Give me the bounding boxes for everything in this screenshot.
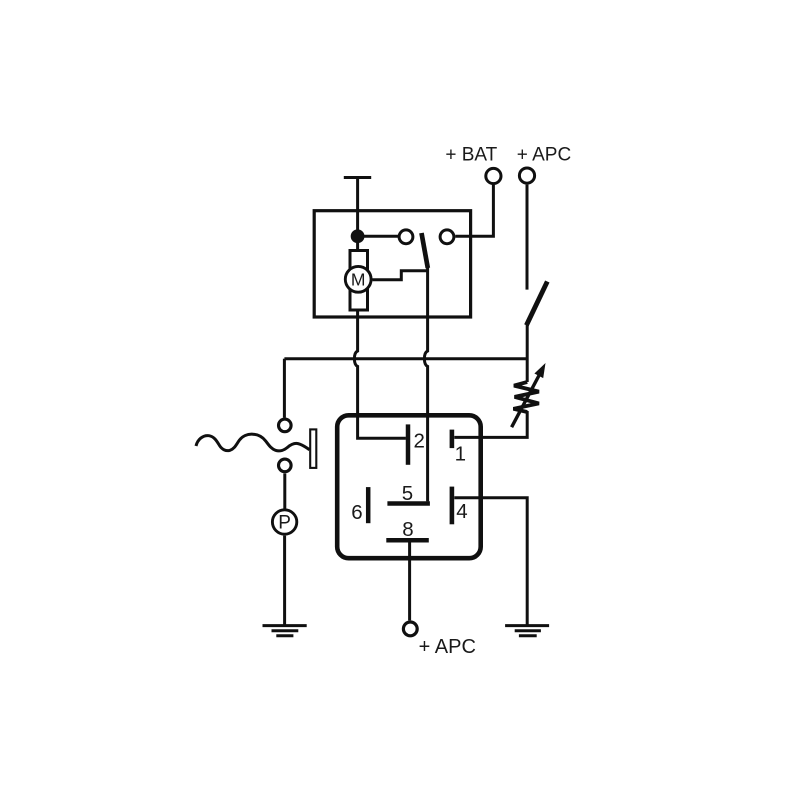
variable resistor arrow	[512, 363, 546, 427]
pin 5 bar	[387, 501, 430, 506]
wire junction dot to motor resistor	[356, 243, 359, 252]
+BAT terminal circle	[486, 168, 501, 183]
contact terminal circle a	[399, 230, 413, 244]
wire plug P to ground	[283, 536, 286, 626]
coax wavy lead	[196, 434, 310, 451]
pin 4 bar	[450, 487, 455, 525]
svg-text:P: P	[278, 513, 291, 534]
ground right	[505, 626, 549, 636]
antenna terminal circle lower	[279, 459, 292, 472]
wire pin 4 to right ground	[454, 498, 527, 626]
bus wire horizontal	[284, 357, 527, 360]
pin 2 bar	[406, 424, 411, 464]
wire motor lead down to pin 2 (with crossover hop)	[354, 309, 406, 438]
antenna mast	[344, 178, 371, 237]
svg-text:+ APC: + APC	[517, 144, 571, 165]
relay unit box	[337, 415, 481, 558]
svg-text:8: 8	[402, 518, 413, 541]
svg-text:4: 4	[456, 500, 467, 523]
wire dot to contact 1	[358, 235, 398, 238]
motor unit box	[314, 211, 470, 317]
ground left	[263, 626, 307, 636]
wire switch lead down to pin 5 (with crossover hop)	[424, 266, 427, 501]
pin 1 bar	[450, 430, 455, 449]
wire resistor to pin 1 corner	[454, 411, 527, 437]
ignition switch blade	[526, 282, 547, 326]
svg-text:1: 1	[455, 442, 466, 465]
wire lower terminal to plug P	[283, 473, 286, 508]
pin 6 bar	[366, 487, 371, 523]
wire bus down to antenna terminal	[283, 359, 286, 418]
svg-text:+ BAT: + BAT	[445, 145, 497, 166]
svg-text:5: 5	[402, 482, 413, 505]
svg-text:+ APC: + APC	[419, 636, 476, 658]
wire motor to switch blade (L-shape)	[373, 271, 428, 280]
variable resistor zigzag	[513, 382, 539, 412]
wire contact b to +BAT corner	[455, 185, 493, 236]
antenna terminal circle upper	[279, 419, 292, 432]
coax connector plate	[310, 429, 316, 468]
bottom +APC terminal circle	[403, 622, 417, 636]
node A junction dot	[351, 229, 365, 243]
wire pin 8 to bottom +APC terminal	[408, 542, 411, 620]
plug connector P	[272, 510, 296, 534]
motor M circle	[345, 266, 371, 292]
svg-text:2: 2	[413, 429, 424, 452]
svg-text:6: 6	[351, 501, 362, 524]
pin 8 bar	[386, 538, 429, 543]
switch blade inside motor unit	[422, 233, 428, 268]
motor housing rectangle	[350, 251, 368, 311]
wire switch to variable resistor	[526, 324, 529, 382]
wire +APC down to ignition switch	[526, 185, 529, 290]
contact terminal circle b	[440, 230, 454, 244]
svg-text:M: M	[351, 269, 366, 289]
+APC terminal circle (top)	[519, 168, 534, 183]
